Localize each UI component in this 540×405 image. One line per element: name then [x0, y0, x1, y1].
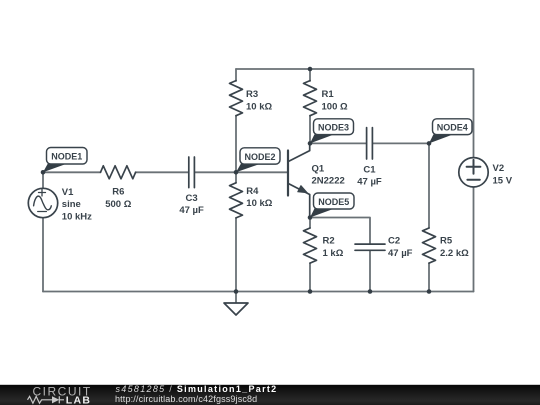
ground: [224, 303, 248, 315]
svg-text:s4581285 / Simulation1_Part2: s4581285 / Simulation1_Part2: [116, 384, 278, 394]
capacitor C1 47 uF: [357, 128, 382, 188]
CircuitLab logo wordmark: [28, 385, 92, 405]
wire top rail from R3 top to V2 top corner: [236, 69, 474, 158]
node label NODE1: [43, 148, 87, 173]
wire NODE4 to R5 top: [428, 143, 430, 228]
wire R2 top lead: [309, 218, 311, 229]
resistor R6 500 Ohm: [101, 166, 136, 210]
wire R3 bottom lead to NODE2: [235, 116, 237, 173]
svg-text:47 µF: 47 µF: [388, 248, 413, 259]
svg-text:R4: R4: [246, 186, 259, 197]
wire V1 top lead: [42, 172, 44, 188]
svg-text:100 Ω: 100 Ω: [322, 101, 348, 112]
svg-text:NODE4: NODE4: [437, 123, 468, 133]
svg-text:sine: sine: [62, 199, 81, 210]
wire V2 bottom lead: [473, 187, 475, 292]
svg-text:10 kΩ: 10 kΩ: [246, 198, 272, 209]
svg-text:R6: R6: [112, 187, 124, 198]
svg-text:Q1: Q1: [312, 163, 325, 174]
junction R5 / bottom rail: [427, 289, 432, 294]
wire R1 top lead: [309, 69, 311, 81]
junction node NODE2: [234, 170, 239, 175]
svg-text:2N2222: 2N2222: [312, 176, 345, 187]
wire C3 to NODE2: [195, 171, 236, 173]
svg-text:C3: C3: [186, 193, 198, 204]
resistor R4 10 kOhm: [230, 183, 273, 218]
svg-text:10 kΩ: 10 kΩ: [246, 101, 272, 112]
junction ground / bottom rail: [234, 289, 239, 294]
svg-text:2.2 kΩ: 2.2 kΩ: [440, 248, 469, 259]
wire NODE3 to C1: [310, 142, 366, 144]
svg-text:R2: R2: [323, 236, 335, 247]
svg-text:C1: C1: [363, 164, 376, 175]
junction C2 / bottom rail: [368, 289, 373, 294]
wire R6 to C3: [136, 171, 189, 173]
junction node A NODE1: [41, 170, 46, 175]
wire R5 bottom lead: [428, 263, 430, 291]
svg-text:1 kΩ: 1 kΩ: [323, 248, 344, 259]
svg-text:NODE1: NODE1: [51, 152, 82, 162]
junction node NODE5: [308, 215, 313, 220]
node label NODE2: [236, 148, 280, 173]
wire R3 top lead: [235, 69, 237, 81]
wire R2 bottom lead: [309, 263, 311, 291]
wire R4 bottom lead: [235, 218, 237, 292]
svg-text:47 µF: 47 µF: [357, 177, 382, 188]
junction R2 / bottom rail: [308, 289, 313, 294]
wire ground stem: [235, 292, 237, 304]
svg-text:NODE3: NODE3: [318, 123, 349, 133]
node label NODE5: [310, 193, 354, 218]
svg-text:15 V: 15 V: [493, 175, 513, 186]
junction node NODE3: [308, 141, 313, 146]
svg-text:NODE5: NODE5: [318, 197, 349, 207]
svg-text:C2: C2: [388, 236, 400, 247]
transistor Q1 2N2222 NPN: [288, 143, 345, 217]
svg-text:V1: V1: [62, 187, 74, 198]
svg-text:R1: R1: [322, 89, 335, 100]
svg-text:NODE2: NODE2: [244, 152, 275, 162]
svg-text:LAB: LAB: [66, 394, 91, 405]
voltage source V2 15 V: [459, 158, 513, 187]
svg-text:500 Ω: 500 Ω: [105, 199, 131, 210]
footer bar: [0, 385, 540, 405]
voltage source V1 sine 10 kHz: [28, 188, 57, 217]
junction top rail / R1: [308, 67, 313, 72]
svg-text:R3: R3: [246, 89, 258, 100]
resistor R2 1 kOhm: [304, 228, 344, 263]
wire R1 bottom lead to NODE3: [309, 116, 311, 144]
svg-text:http://circuitlab.com/c42fgss9: http://circuitlab.com/c42fgss9jsc8d: [115, 394, 257, 404]
capacitor C2 47 uF: [355, 236, 413, 259]
wire NODE1 to R6: [43, 171, 101, 173]
svg-text:R5: R5: [440, 236, 453, 247]
footer text: [115, 384, 277, 404]
wire V1 bottom lead: [42, 218, 44, 292]
junction node NODE4: [427, 141, 432, 146]
wire NODE5 to C2 top: [310, 218, 370, 244]
resistor R5 2.2 kOhm: [423, 228, 470, 263]
wire C2 bottom lead: [369, 251, 371, 292]
svg-text:V2: V2: [493, 163, 505, 174]
resistor R1 100 Ohm: [304, 81, 348, 116]
resistor R3 10 kOhm: [230, 81, 273, 116]
capacitor C3 47 uF: [179, 157, 204, 216]
svg-text:10 kHz: 10 kHz: [62, 211, 92, 222]
wire NODE2 to Q1 base: [236, 171, 287, 173]
node label NODE3: [310, 119, 354, 144]
svg-text:47 µF: 47 µF: [179, 205, 204, 216]
node label NODE4: [429, 119, 472, 144]
wire R4 top lead: [235, 172, 237, 183]
wire bottom rail: [43, 291, 474, 293]
wire C1 to NODE4: [373, 142, 429, 144]
